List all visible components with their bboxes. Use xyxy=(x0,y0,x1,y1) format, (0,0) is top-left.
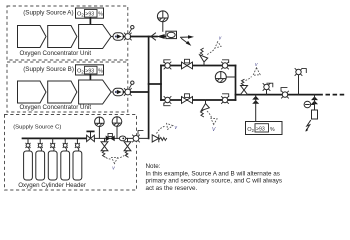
svg-text:v: v xyxy=(112,166,115,172)
O2 purity label box A xyxy=(76,8,104,18)
wire stage3 A to check valve xyxy=(111,36,113,38)
cylinder 2 xyxy=(36,138,45,180)
relief valve top branch xyxy=(200,48,208,65)
svg-text:V: V xyxy=(212,127,216,133)
wire trunk to ring inlet xyxy=(149,83,161,85)
line regulator C2 xyxy=(124,138,131,157)
line regulator C1 xyxy=(101,138,108,157)
svg-text:v: v xyxy=(255,62,258,68)
svg-text:(Supply Source C): (Supply Source C) xyxy=(13,125,61,131)
valve V1 top branch xyxy=(164,60,171,69)
svg-text:Oxygen Concentrator Unit: Oxygen Concentrator Unit xyxy=(20,50,92,57)
wire source valve A to trunk xyxy=(131,36,157,38)
reserve check valve xyxy=(152,135,159,142)
line relief valve after ring xyxy=(241,79,248,94)
arrow to distribution 2 xyxy=(182,39,192,46)
ring right leg xyxy=(235,66,237,101)
pressure gauge ring xyxy=(215,72,235,83)
sample point circle xyxy=(304,101,314,108)
svg-text:v: v xyxy=(219,36,222,42)
concentrator stage 2 A xyxy=(48,26,77,48)
svg-text:(Supply Source A): (Supply Source A) xyxy=(23,10,73,17)
gate valve with gearbox bottom branch xyxy=(182,94,193,104)
wire check valve B to source valve B xyxy=(124,91,126,93)
ring bottom branch xyxy=(161,99,236,101)
wire O2 label B to unit xyxy=(89,75,91,81)
gate valve C xyxy=(106,134,115,142)
wire check valve A to source valve A xyxy=(124,36,126,38)
valve V2 top branch xyxy=(222,60,229,69)
svg-text:Oxygen Concentrator Unit: Oxygen Concentrator Unit xyxy=(20,104,92,111)
cylinder 5 xyxy=(73,138,82,180)
svg-text:In this example, Source A and: In this example, Source A and B will alt… xyxy=(146,170,280,177)
check valve top line xyxy=(151,33,156,40)
svg-text:Note:: Note: xyxy=(146,163,161,170)
main line dashed continuation xyxy=(326,94,346,96)
arrow to distribution 1 xyxy=(181,35,195,39)
supply source A dashed enclosure xyxy=(7,6,128,60)
source valve A xyxy=(124,26,134,41)
sensor body xyxy=(312,110,318,119)
concentrator stage 2 B xyxy=(48,81,77,103)
relief valve bottom branch xyxy=(201,100,210,117)
header isolation globe valve xyxy=(87,131,95,141)
concentrator stage 3 B xyxy=(79,80,112,104)
concentrator stage 1 A xyxy=(18,26,47,48)
wire main line to O2 label xyxy=(255,95,257,122)
supply source B dashed enclosure xyxy=(7,62,128,112)
wire source valve B to trunk xyxy=(131,91,149,93)
vent V after ring xyxy=(246,62,261,81)
wire stage3 B to check valve xyxy=(111,91,113,93)
vent V top branch xyxy=(207,36,222,55)
svg-text:O2: O2 xyxy=(247,127,254,133)
svg-text:(Supply Source B): (Supply Source B) xyxy=(23,66,74,73)
supply source C dashed enclosure xyxy=(5,115,137,191)
wire header to trunk xyxy=(94,137,148,139)
vent V reserve xyxy=(157,123,178,133)
check valve B xyxy=(113,88,124,95)
concentrator stage 3 A xyxy=(79,25,112,49)
signal squiggle xyxy=(306,121,311,132)
cylinder 3 xyxy=(48,138,57,180)
flex connector xyxy=(159,138,166,141)
vent V regulators C xyxy=(106,154,127,172)
svg-text:>93: >93 xyxy=(256,127,265,133)
valve V5 on riser xyxy=(263,83,273,94)
source valve C xyxy=(133,131,144,142)
svg-text:O2: O2 xyxy=(77,68,84,74)
cylinder 1 xyxy=(24,138,33,180)
gate valve with gearbox top branch xyxy=(182,59,193,69)
flow arrow left xyxy=(156,34,167,39)
pressure gauge C2 xyxy=(112,117,122,139)
flow arrows O2 junction xyxy=(252,96,259,104)
svg-text:v: v xyxy=(175,125,178,131)
area valve on riser xyxy=(295,69,306,76)
valve V4 bottom branch xyxy=(222,94,229,104)
check valve A xyxy=(113,33,124,40)
wire O2 label A to unit xyxy=(89,18,91,25)
cylinder 4 xyxy=(61,138,70,180)
svg-text:primary and secondary source,: primary and secondary source, and C will… xyxy=(146,178,283,185)
valve V6 inline xyxy=(281,88,289,99)
svg-text:%: % xyxy=(270,127,275,133)
pressure gauge top xyxy=(157,11,168,31)
line regulator top xyxy=(166,31,177,38)
wire main line to sensor xyxy=(314,95,316,110)
source valve B xyxy=(124,81,134,96)
pressure gauge C1 xyxy=(95,117,105,138)
cylinder header bar xyxy=(23,137,87,139)
valve V3 bottom branch xyxy=(164,97,171,106)
ring top branch xyxy=(161,65,236,67)
svg-text:O2: O2 xyxy=(77,12,84,18)
trunk header vertical xyxy=(148,37,150,139)
vent V bottom branch xyxy=(207,111,217,133)
concentrator stage 1 B xyxy=(18,81,47,103)
main line xyxy=(236,94,323,96)
riser to area valve xyxy=(298,76,300,95)
svg-text:%: % xyxy=(98,12,103,18)
ring left leg xyxy=(160,66,162,101)
svg-text:>93: >93 xyxy=(85,12,94,18)
svg-text:%: % xyxy=(98,68,103,74)
svg-text:Oxygen Cylinder Header: Oxygen Cylinder Header xyxy=(18,182,86,189)
O2 purity label box main xyxy=(246,122,283,135)
svg-text:act as the reserve.: act as the reserve. xyxy=(146,185,198,192)
O2 purity label box B xyxy=(76,65,104,75)
union filter C xyxy=(119,136,125,141)
note text xyxy=(146,163,283,192)
flow arrows sensor branch xyxy=(311,96,318,104)
svg-text:>93: >93 xyxy=(85,68,94,74)
